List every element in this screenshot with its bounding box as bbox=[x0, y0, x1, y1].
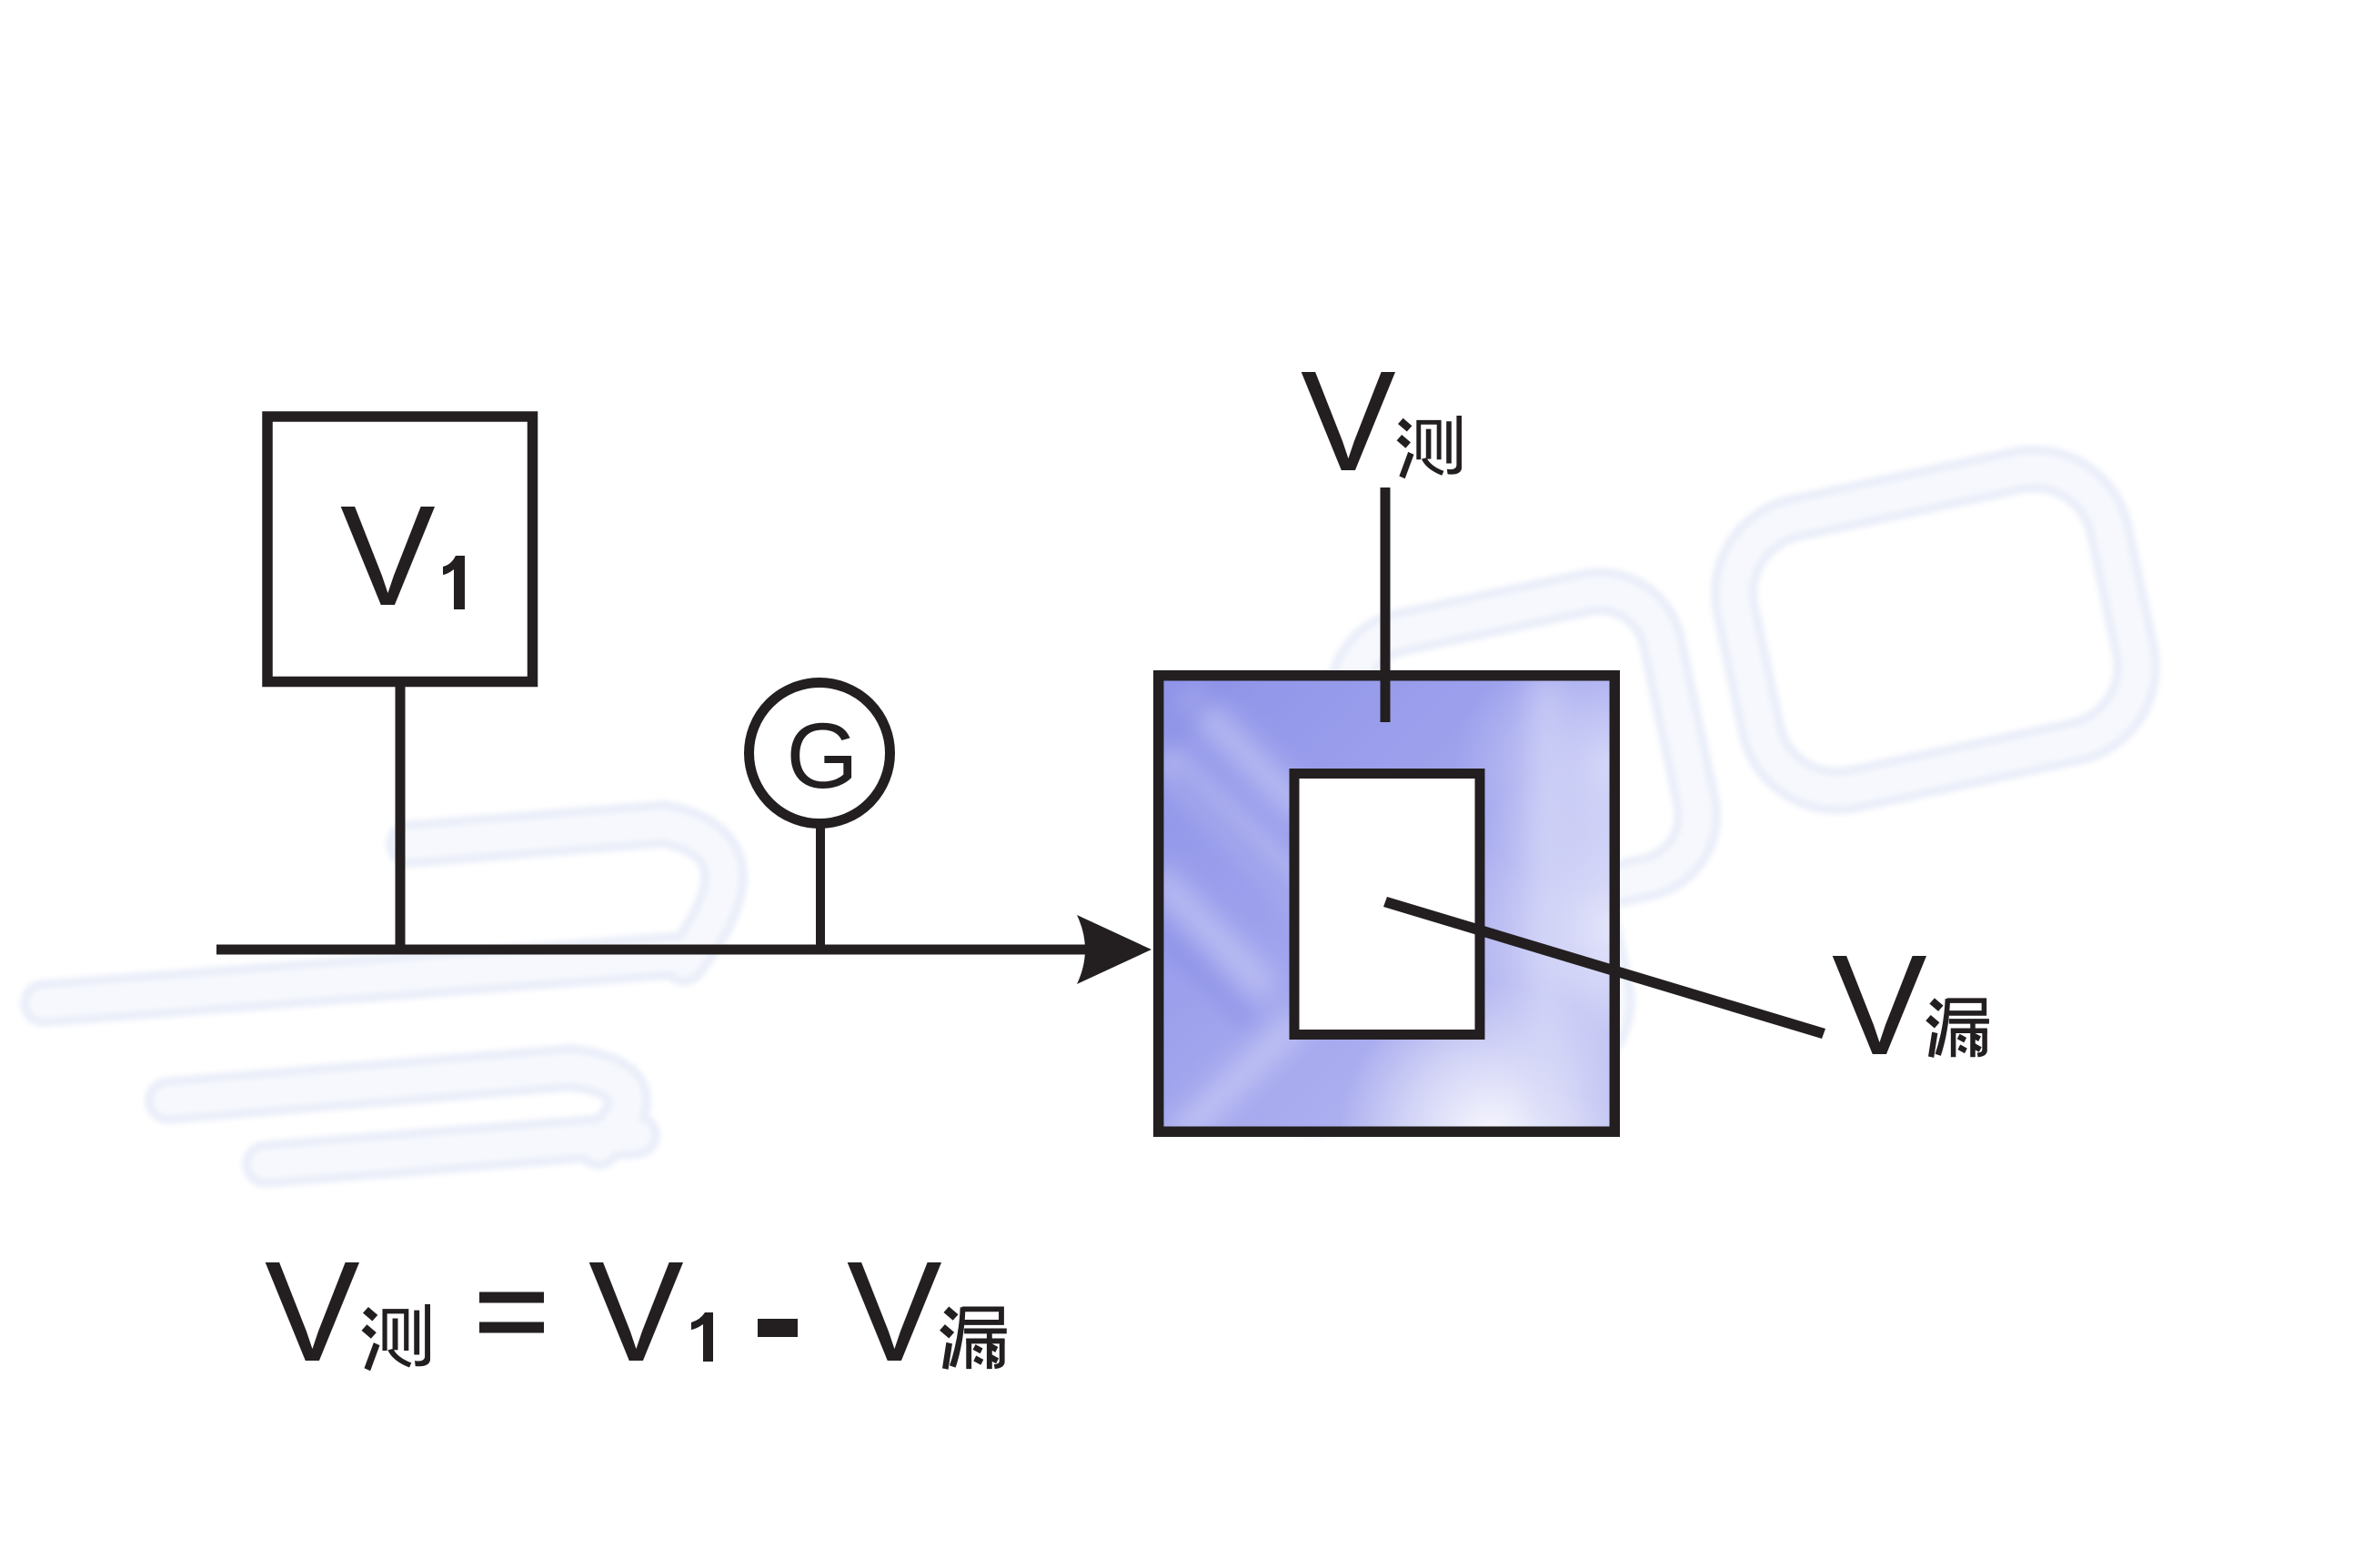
formula minus sign bbox=[758, 1319, 798, 1337]
svg-text:V: V bbox=[1301, 342, 1396, 501]
formula subscript 测 (drawn) bbox=[362, 1304, 430, 1371]
leader line V漏 bbox=[1383, 897, 1825, 1039]
watermark logo (very light background emblem) bbox=[44, 455, 2151, 1164]
svg-text:V: V bbox=[1832, 926, 1927, 1085]
wire horizontal bus bbox=[216, 945, 1096, 955]
CJK glyph 漏 (drawn) bbox=[1926, 998, 1989, 1058]
probe line V测 bbox=[1381, 487, 1391, 722]
gauge G circle bbox=[749, 683, 890, 824]
chamber border bbox=[1159, 676, 1615, 1132]
arrowhead into chamber bbox=[1077, 915, 1151, 984]
CJK glyph 测 (drawn) bbox=[1397, 416, 1462, 478]
voltage source V1 box bbox=[267, 417, 533, 682]
svg-text:V: V bbox=[265, 1232, 360, 1392]
svg-text:G: G bbox=[786, 704, 858, 808]
watermark logo highlight core bbox=[44, 455, 2151, 1164]
subscript 1 of V1 (drawn) bbox=[443, 556, 465, 609]
chamber (blue box) bbox=[1159, 676, 1615, 1132]
formula equals sign bbox=[479, 1292, 544, 1303]
svg-text:V: V bbox=[847, 1232, 942, 1392]
svg-text:V: V bbox=[588, 1232, 684, 1392]
svg-text:V: V bbox=[340, 477, 436, 636]
formula subscript 1 (drawn) bbox=[691, 1312, 713, 1362]
inner rectangle (sample) bbox=[1294, 774, 1480, 1035]
label V1 bbox=[340, 477, 465, 636]
formula subscript 漏 (drawn) bbox=[940, 1306, 1007, 1369]
wire V1 to bus bbox=[396, 681, 406, 950]
formula V测 = V1 - V漏 bbox=[265, 1232, 1007, 1392]
gauge G stem wire bbox=[816, 819, 825, 950]
